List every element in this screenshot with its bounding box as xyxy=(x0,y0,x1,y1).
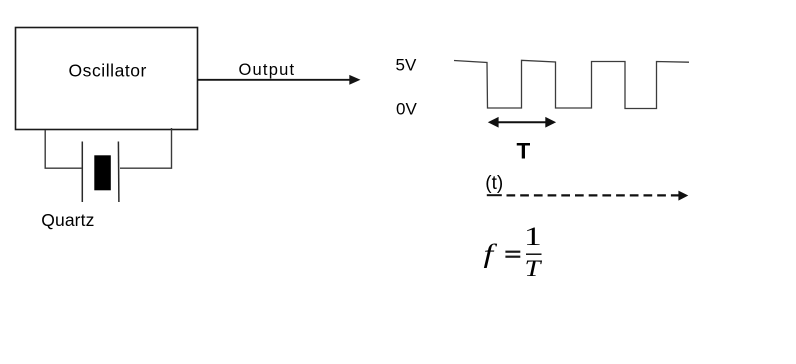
formula equals sign xyxy=(505,251,520,253)
time axis arrowhead xyxy=(678,191,688,201)
svg-text:T: T xyxy=(525,256,544,281)
svg-text:f: f xyxy=(484,238,498,268)
svg-text:0V: 0V xyxy=(396,100,417,119)
crystal X1 left plate xyxy=(81,142,83,203)
period arrowhead right xyxy=(545,117,556,128)
formula f = 1/T xyxy=(484,222,544,281)
underline of (t) xyxy=(487,194,502,196)
crystal X1 body xyxy=(94,155,111,190)
crystal X1 right plate xyxy=(117,142,120,203)
formula fraction bar xyxy=(526,253,542,255)
oscillator block U1 xyxy=(16,28,198,130)
wire output from oscillator pin xyxy=(197,79,352,81)
svg-text:Quartz: Quartz xyxy=(41,210,94,230)
arrowhead output xyxy=(349,75,360,85)
period double arrow xyxy=(495,121,549,123)
svg-text:(t): (t) xyxy=(485,173,503,194)
period arrowhead left xyxy=(488,117,499,128)
svg-text:Output: Output xyxy=(239,61,296,79)
svg-text:T: T xyxy=(517,139,531,164)
wire right lead oscillator to crystal xyxy=(120,128,172,168)
wire left lead oscillator to crystal xyxy=(45,130,81,168)
svg-text:5V: 5V xyxy=(396,55,417,74)
svg-text:1: 1 xyxy=(524,222,542,251)
time axis dashed wire xyxy=(507,194,680,196)
svg-text:Oscillator: Oscillator xyxy=(69,61,147,81)
waveform square wave xyxy=(454,60,689,108)
